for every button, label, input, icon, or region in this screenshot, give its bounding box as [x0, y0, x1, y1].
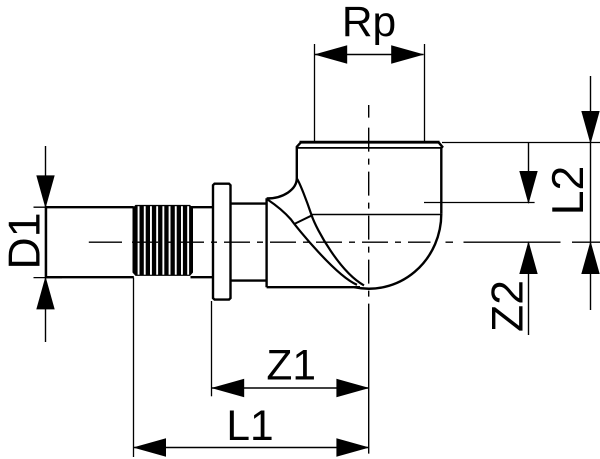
Z1 left arrow [211, 379, 244, 397]
socket top band [300, 141, 440, 144]
svg-text:Z1: Z1 [266, 342, 316, 389]
socket mouth right chamfer [439, 142, 443, 148]
crotch curve A (socket-to-body intersection) [297, 178, 364, 285]
svg-text:D1: D1 [1, 213, 50, 270]
male thread block (ribbed) [133, 205, 194, 276]
svg-text:Rp: Rp [342, 0, 396, 46]
horizontal centerline [89, 241, 600, 243]
Z2 dimension line lower segment [528, 243, 530, 336]
internal shoulder chord [312, 214, 442, 216]
Z2 top extension stub [424, 202, 535, 204]
L1 left arrow [133, 438, 166, 456]
step edge [265, 198, 267, 287]
crotch curve B (outer transition) [268, 200, 358, 285]
D1 bottom extension line [34, 277, 63, 279]
D1 bottom arrow [36, 276, 54, 309]
svg-text:L2: L2 [544, 166, 593, 216]
Rp left extension line [314, 44, 316, 142]
elbow bowl (spherical lower outline) [354, 214, 441, 289]
L2 top extension line [442, 142, 600, 144]
svg-text:Z2: Z2 [484, 280, 533, 332]
Z2 bottom arrow [519, 241, 537, 274]
Z2 dimension line upper segment [528, 143, 530, 203]
Z1 left extension line [211, 301, 213, 396]
L2 bottom arrow [581, 241, 599, 274]
flange collar (insertion stop) [213, 184, 231, 300]
transition tick mark [295, 215, 312, 223]
body small cylinder [231, 204, 267, 281]
pipe spigot (plain male end, D1) [46, 206, 134, 278]
Z2 top arrow [519, 171, 537, 204]
socket band inner line [298, 147, 441, 149]
neck between thread and flange [191, 207, 214, 277]
body bottom edge [267, 286, 360, 288]
Rp right arrow [391, 45, 424, 63]
D1 top extension line [34, 206, 63, 208]
Rp right extension line [424, 44, 426, 142]
L1 left extension line [133, 278, 135, 458]
D1 dimension line [45, 146, 47, 342]
L1 dimension line [134, 447, 369, 449]
socket right wall [440, 147, 442, 214]
vertical centerline [368, 105, 370, 454]
Rp left arrow [314, 45, 347, 63]
svg-text:L1: L1 [226, 403, 273, 450]
L2 top arrow [581, 111, 599, 144]
Z1 right arrow [336, 379, 369, 397]
L2 dimension line [590, 76, 592, 310]
Rp dimension line [315, 54, 424, 56]
elbow outline: elliptical fillet from step corner, socket left wall, mouth chamfer [267, 142, 301, 198]
D1 top arrow [36, 175, 54, 208]
Z1 dimension line [212, 387, 369, 389]
L1 right arrow [336, 438, 369, 456]
